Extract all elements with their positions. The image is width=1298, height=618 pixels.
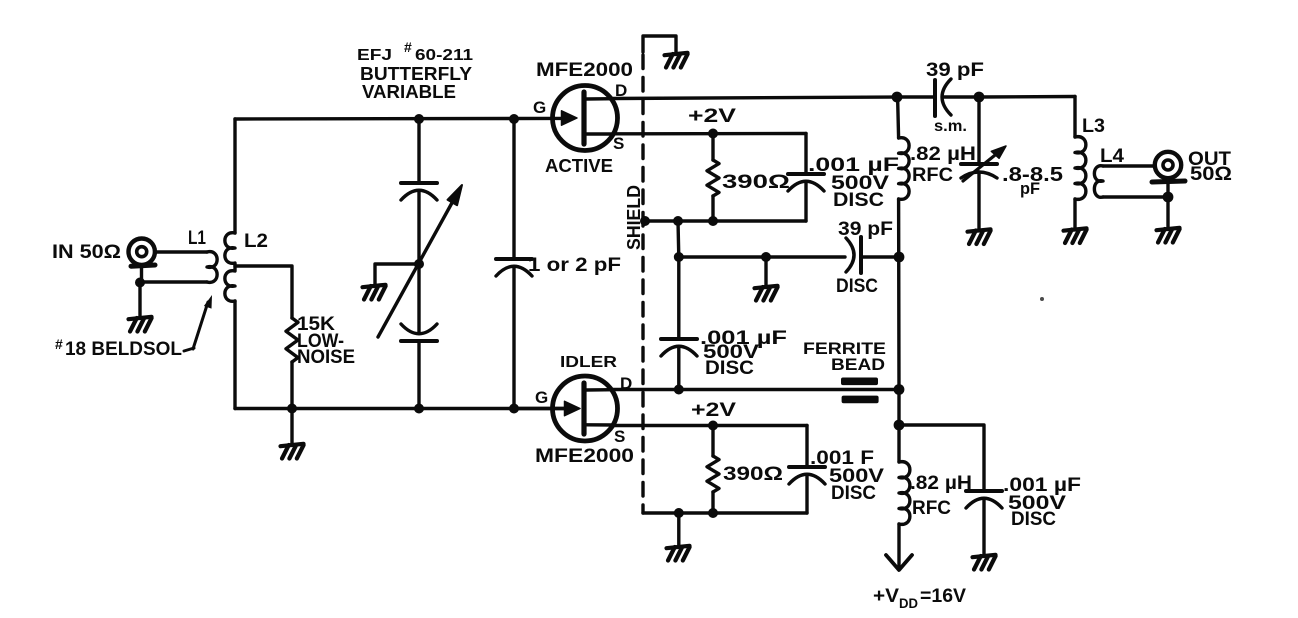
- svg-text:ACTIVE: ACTIVE: [545, 156, 613, 176]
- svg-text:390Ω: 390Ω: [722, 172, 790, 193]
- svg-text:VARIABLE: VARIABLE: [362, 82, 456, 102]
- node C4 right: [894, 252, 905, 263]
- shield dashed partition: [641, 55, 644, 513]
- wire bottom tank rail: [235, 407, 565, 410]
- ferrite bead FB1: [841, 378, 879, 404]
- wire top tank rail: [235, 117, 562, 121]
- svg-text:D: D: [615, 81, 627, 100]
- wire Q2 gate lead: [514, 407, 564, 410]
- connector J2 OUT: [1152, 152, 1185, 197]
- ground C8: [973, 555, 996, 570]
- svg-text:MFE2000: MFE2000: [535, 446, 634, 467]
- capacitor C6 .001F 500V disc idler: [789, 426, 825, 514]
- svg-text:IDLER: IDLER: [560, 354, 618, 371]
- inductor L6 .82uH RFC lower: [899, 462, 910, 525]
- svg-text:39 pF: 39 pF: [838, 219, 893, 240]
- svg-text:EFJ: EFJ: [357, 47, 392, 64]
- wire VDD feed arrow shaft: [897, 524, 900, 566]
- svg-text:39 pF: 39 pF: [926, 60, 984, 81]
- resistor R3 390 ohm idler: [707, 426, 719, 514]
- svg-text:DISC: DISC: [705, 358, 754, 379]
- svg-text:G: G: [533, 98, 546, 117]
- svg-text:BUTTERFLY: BUTTERFLY: [360, 64, 472, 84]
- svg-text:G: G: [535, 388, 548, 407]
- resistor R2 390 ohm: [707, 134, 719, 222]
- svg-text:BEAD: BEAD: [831, 355, 885, 374]
- ground L3: [1064, 228, 1087, 243]
- transistor Q1 MFE2000 ACTIVE: [553, 86, 618, 151]
- inductor L5 .82uH RFC upper: [899, 138, 910, 200]
- inductor L1: [144, 252, 217, 283]
- node C7 right junction: [974, 92, 985, 103]
- svg-text:18 BELDSOL: 18 BELDSOL: [65, 339, 182, 360]
- node R3 bottom: [708, 508, 718, 518]
- svg-text:pF: pF: [1020, 179, 1040, 198]
- capacitor C9 .8-8.5pF variable: [961, 97, 997, 229]
- ground shield top: [665, 53, 688, 68]
- resistor R1 15K: [286, 318, 298, 362]
- capacitor C1 butterfly bottom section: [401, 324, 437, 409]
- wire Q1 drain rail: [613, 97, 897, 99]
- wire 15K lower lead: [290, 362, 293, 444]
- svg-text:#: #: [55, 336, 63, 352]
- scan speck: [1040, 297, 1044, 301]
- wire input ground drop: [138, 283, 141, 318]
- svg-text:60-211: 60-211: [415, 47, 473, 64]
- ground input: [129, 317, 152, 332]
- capacitor C7 39pF silver mica: [897, 79, 979, 116]
- connector J1 IN: [129, 239, 156, 283]
- svg-text:DISC: DISC: [831, 483, 876, 504]
- wire 39pF rail ground drop: [764, 257, 767, 286]
- wire bypass branch: [899, 425, 984, 491]
- ground output: [1157, 228, 1180, 243]
- ground idler rail: [667, 546, 690, 561]
- ground butterfly: [363, 285, 386, 300]
- node Q1 source +2V: [708, 129, 718, 139]
- wire right feed vertical mid: [897, 199, 901, 390]
- svg-text:50Ω: 50Ω: [1190, 164, 1232, 185]
- wire left vertical top: [233, 119, 236, 233]
- svg-text:+V: +V: [873, 586, 899, 607]
- node Q2 source +2V: [708, 421, 718, 431]
- node C5 bottom idler drain: [674, 385, 684, 395]
- wire output rail: [979, 95, 1075, 99]
- node butterfly top rail: [414, 114, 424, 124]
- svg-text:IN 50Ω: IN 50Ω: [52, 242, 121, 263]
- svg-text:.82 µH: .82 µH: [910, 144, 976, 165]
- svg-text:L4: L4: [1100, 146, 1124, 167]
- wire interstage vertical: [676, 221, 680, 257]
- wire left vertical bottom: [233, 301, 236, 409]
- node butterfly rotor: [414, 259, 424, 269]
- wire right feed vertical upper: [898, 97, 899, 138]
- wire L2 tap to 15K: [235, 266, 292, 318]
- arrow VDD supply: [886, 555, 912, 570]
- wire butterfly rotor ground stub: [375, 264, 419, 285]
- node input shield junction: [135, 278, 145, 288]
- node idler rail ground tap: [674, 508, 684, 518]
- wire Q2 source lead: [613, 424, 807, 427]
- inductor L3: [1075, 97, 1086, 229]
- ground C9: [968, 229, 991, 244]
- wire Q2 bias return rail: [643, 511, 807, 514]
- node right feed bypass junction: [894, 420, 905, 431]
- svg-text:1 or 2 pF: 1 or 2 pF: [528, 255, 621, 276]
- svg-text:RFC: RFC: [912, 165, 953, 186]
- svg-text:+2V: +2V: [691, 400, 736, 421]
- capacitor C4 39pF disc: [846, 237, 899, 273]
- wire Q2 drain rail: [613, 388, 899, 391]
- node bias rail at shield: [640, 216, 650, 226]
- svg-text:DISC: DISC: [833, 190, 884, 211]
- svg-text:MFE2000: MFE2000: [536, 60, 633, 81]
- svg-text:=16V: =16V: [920, 586, 966, 607]
- capacitor C5 .001uF 500V disc idler gate: [661, 257, 697, 390]
- svg-text:DISC: DISC: [836, 276, 878, 297]
- node butterfly bottom rail: [414, 404, 424, 414]
- capacitor C2 1 or 2 pF: [496, 119, 532, 409]
- svg-text:D: D: [620, 374, 632, 393]
- svg-text:SHIELD: SHIELD: [624, 185, 644, 250]
- arrow C9 trimmer: [963, 146, 1006, 181]
- capacitor C8 .001uF 500V disc supply: [966, 491, 1002, 555]
- wire idler rail ground drop: [677, 513, 680, 546]
- svg-text:s.m.: s.m.: [934, 118, 967, 135]
- svg-text:L3: L3: [1082, 116, 1105, 137]
- node R2 bottom: [708, 216, 718, 226]
- node 15K bottom rail: [287, 404, 297, 414]
- node output shield junction: [1163, 192, 1174, 203]
- svg-text:DD: DD: [899, 595, 918, 611]
- svg-text:DISC: DISC: [1011, 509, 1056, 530]
- node right feed ferrite junction: [894, 384, 905, 395]
- svg-text:S: S: [614, 427, 625, 446]
- node bias rail branch: [673, 216, 683, 226]
- inductor L4: [1094, 166, 1168, 198]
- svg-text:#: #: [404, 39, 412, 55]
- arrow butterfly variable: [378, 185, 462, 337]
- svg-text:S: S: [613, 134, 624, 153]
- svg-text:L2: L2: [244, 231, 268, 252]
- node C2 bottom rail: [509, 404, 519, 414]
- wire shield top hook: [643, 36, 676, 53]
- ground 15K: [281, 444, 304, 459]
- svg-text:RFC: RFC: [912, 498, 951, 519]
- capacitor C3 .001uF 500V disc: [788, 134, 824, 222]
- wire output ground drop: [1166, 197, 1169, 228]
- wire right feed vertical lower: [897, 390, 900, 463]
- svg-text:+2V: +2V: [688, 106, 736, 127]
- transistor Q2 MFE2000 IDLER: [553, 376, 618, 441]
- inductor L2: [225, 233, 235, 302]
- node C2 top rail: [509, 114, 519, 124]
- capacitor C1 butterfly top section: [401, 119, 437, 333]
- ground 39pF rail: [755, 286, 778, 301]
- node 39pF rail ground tap: [761, 252, 771, 262]
- svg-text:390Ω: 390Ω: [723, 464, 783, 485]
- arrow BELDSOL callout: [184, 302, 208, 351]
- svg-text:.82 µH: .82 µH: [910, 473, 972, 494]
- wire 39pF disc rail: [679, 255, 845, 258]
- wire Q1 bias return rail: [643, 219, 806, 222]
- node 39pF rail left: [674, 252, 684, 262]
- svg-text:NOISE: NOISE: [297, 347, 355, 368]
- wire Q1 source lead: [613, 132, 806, 136]
- svg-text:L1: L1: [188, 228, 206, 249]
- node drain rail left junction: [892, 92, 903, 103]
